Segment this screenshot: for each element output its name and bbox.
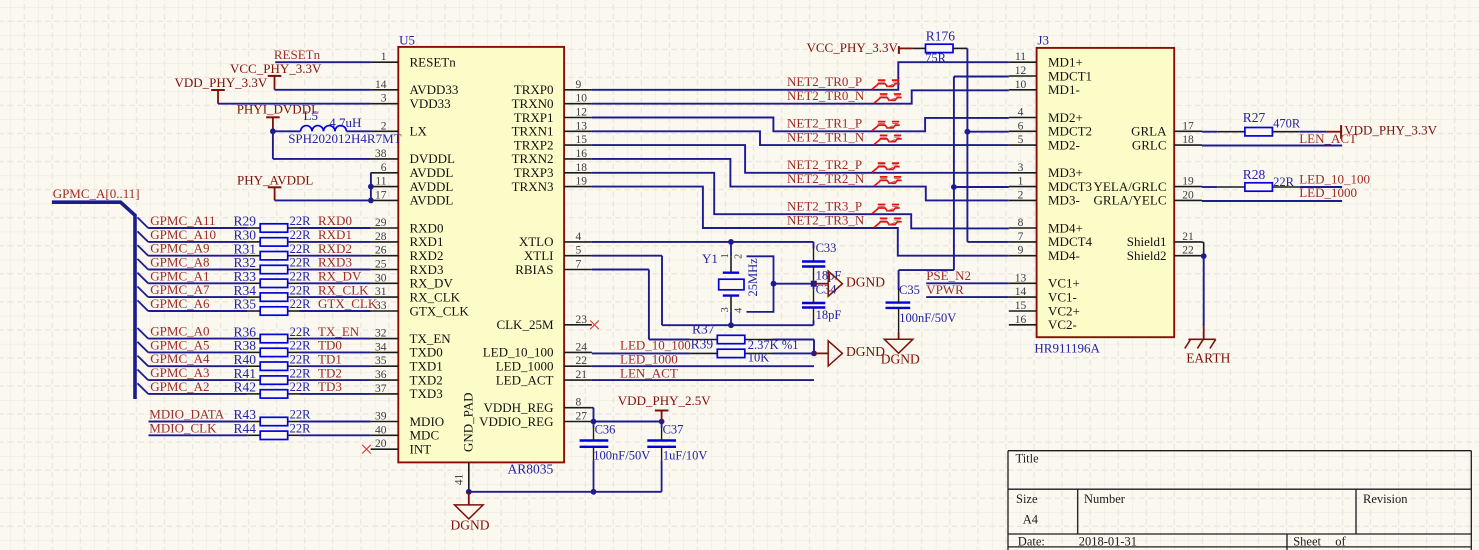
bus label GPMC_A[0..11] bbox=[53, 186, 140, 201]
svg-text:VPWR: VPWR bbox=[926, 282, 964, 297]
svg-text:VDD_PHY_2.5V: VDD_PHY_2.5V bbox=[618, 393, 711, 408]
svg-text:MD4+: MD4+ bbox=[1048, 220, 1083, 235]
svg-text:AVDDL: AVDDL bbox=[410, 165, 454, 180]
svg-text:R39: R39 bbox=[691, 336, 714, 351]
bus entry GPMC_A10 bbox=[137, 231, 148, 242]
wire GPMC_A4 to resistor bbox=[148, 365, 248, 367]
svg-text:GPMC_A5: GPMC_A5 bbox=[150, 337, 209, 352]
svg-text:HR911196A: HR911196A bbox=[1034, 341, 1100, 356]
svg-text:RX_CLK: RX_CLK bbox=[318, 282, 369, 297]
svg-text:3: 3 bbox=[381, 93, 387, 105]
net label RX_DV bbox=[318, 269, 362, 284]
wire GPMC_A0 to resistor bbox=[148, 338, 248, 340]
bus entry GPMC_A3 bbox=[137, 370, 148, 381]
net label GPMC_A4 bbox=[150, 351, 210, 366]
resistor R30 22R bbox=[234, 228, 312, 246]
net label NET2_TR1_P bbox=[787, 116, 862, 131]
svg-text:GPMC_A10: GPMC_A10 bbox=[150, 227, 216, 242]
wire GND_PAD to caps bbox=[466, 489, 662, 495]
svg-text:TRXN0: TRXN0 bbox=[512, 96, 554, 111]
svg-text:3: 3 bbox=[1018, 162, 1024, 174]
wire NET2_TR2_P bbox=[592, 145, 1009, 173]
wire MDCT1/MDCT3 (vertical B) to C35 bbox=[899, 77, 1009, 290]
net label GTX_CLK bbox=[318, 296, 378, 311]
svg-text:AR8035: AR8035 bbox=[508, 461, 554, 476]
power port PHY_AVDDL bbox=[237, 173, 313, 201]
svg-text:RXD2: RXD2 bbox=[410, 248, 444, 263]
wire GRLA/YELC LED_1000 bbox=[1202, 200, 1342, 202]
svg-text:17: 17 bbox=[375, 189, 387, 201]
resistor R27 470R bbox=[1217, 110, 1301, 136]
svg-text:VCC_PHY_3.3V: VCC_PHY_3.3V bbox=[807, 40, 899, 55]
svg-text:28: 28 bbox=[375, 231, 387, 243]
svg-text:GRLC: GRLC bbox=[1132, 137, 1167, 152]
svg-text:TXD2: TXD2 bbox=[410, 372, 443, 387]
svg-text:VC1-: VC1- bbox=[1048, 289, 1077, 304]
differential pair marker on NET2_TR1_P bbox=[872, 122, 900, 131]
svg-text:TXD3: TXD3 bbox=[410, 386, 443, 401]
svg-text:R44: R44 bbox=[234, 421, 257, 436]
svg-text:VDD33: VDD33 bbox=[410, 96, 451, 111]
svg-text:15: 15 bbox=[1015, 300, 1027, 312]
capacitor C36 100nF/50V bbox=[580, 422, 651, 492]
svg-text:16: 16 bbox=[1015, 314, 1027, 326]
svg-text:R36: R36 bbox=[234, 324, 257, 339]
svg-text:GPMC_A6: GPMC_A6 bbox=[150, 296, 210, 311]
wire GPMC_A6 to resistor bbox=[148, 310, 248, 312]
svg-text:GTX_CLK: GTX_CLK bbox=[318, 296, 378, 311]
net label LED_10_100 (right) bbox=[1299, 172, 1370, 187]
svg-text:TXD1: TXD1 bbox=[410, 359, 443, 374]
no-ERC marker at INT pin 20 bbox=[362, 445, 371, 454]
svg-text:LED_10_100: LED_10_100 bbox=[483, 345, 554, 360]
svg-text:27: 27 bbox=[576, 411, 588, 423]
bus entry GPMC_A6 bbox=[137, 300, 148, 311]
resistor R32 22R bbox=[234, 255, 312, 273]
svg-text:5: 5 bbox=[1018, 134, 1024, 146]
wire TD3 to U5 bbox=[299, 393, 371, 395]
svg-text:5: 5 bbox=[576, 245, 582, 257]
svg-text:LX: LX bbox=[410, 124, 428, 139]
svg-text:TRXN3: TRXN3 bbox=[512, 179, 554, 194]
bus entry GPMC_A4 bbox=[137, 356, 148, 367]
svg-text:100nF/50V: 100nF/50V bbox=[593, 449, 650, 463]
svg-text:1uF/10V: 1uF/10V bbox=[663, 449, 707, 463]
wire GPMC_A9 to resistor bbox=[148, 255, 248, 257]
bus entry GPMC_A7 bbox=[137, 287, 148, 298]
net label GPMC_A5 bbox=[150, 337, 209, 352]
power port EARTH bbox=[1185, 326, 1231, 365]
svg-text:14: 14 bbox=[1015, 286, 1027, 298]
svg-text:Shield2: Shield2 bbox=[1127, 248, 1167, 263]
wire TX_EN to U5 bbox=[299, 338, 371, 340]
resistor R29 22R bbox=[234, 214, 312, 233]
svg-text:RX_DV: RX_DV bbox=[318, 269, 362, 284]
svg-text:GPMC_A8: GPMC_A8 bbox=[150, 255, 209, 270]
wire GRLA to R27 bbox=[1202, 131, 1217, 133]
svg-text:R40: R40 bbox=[234, 352, 257, 367]
wire NET2_TR0_N bbox=[592, 90, 1009, 103]
resistor R31 22R bbox=[234, 241, 312, 260]
svg-text:TD0: TD0 bbox=[318, 338, 342, 353]
svg-text:NET2_TR3_P: NET2_TR3_P bbox=[787, 199, 862, 214]
differential pair marker on NET2_TR0_N bbox=[874, 94, 902, 103]
J3 left pins (stubs, numbers, names) bbox=[1009, 51, 1093, 332]
svg-text:16: 16 bbox=[576, 148, 588, 160]
resistor R37 2.37K %1 bbox=[690, 321, 799, 352]
U5 pin 41 GND_PAD bbox=[454, 393, 476, 492]
svg-text:RESETn: RESETn bbox=[274, 47, 321, 62]
svg-text:VDD_PHY_3.3V: VDD_PHY_3.3V bbox=[1344, 123, 1437, 138]
svg-text:VC1+: VC1+ bbox=[1048, 276, 1080, 291]
svg-text:Title: Title bbox=[1016, 452, 1040, 466]
svg-text:14: 14 bbox=[375, 79, 387, 91]
wire GPMC_A2 to resistor bbox=[148, 393, 248, 395]
svg-text:NET2_TR1_N: NET2_TR1_N bbox=[787, 130, 865, 145]
svg-text:NET2_TR0_P: NET2_TR0_P bbox=[787, 74, 862, 89]
bus entry GPMC_A0 bbox=[137, 328, 148, 339]
svg-text:RX_DV: RX_DV bbox=[410, 276, 454, 291]
svg-text:LED_1000: LED_1000 bbox=[1299, 185, 1357, 200]
capacitor C33 18pF bbox=[802, 241, 841, 283]
svg-text:4: 4 bbox=[576, 231, 582, 243]
svg-text:TRXN2: TRXN2 bbox=[512, 151, 554, 166]
svg-text:MDIO_CLK: MDIO_CLK bbox=[149, 420, 217, 435]
resistor R176 75R bbox=[913, 29, 968, 65]
svg-text:GPMC_A1: GPMC_A1 bbox=[150, 268, 209, 283]
svg-text:22R: 22R bbox=[290, 366, 312, 380]
svg-text:15: 15 bbox=[576, 134, 588, 146]
svg-text:21: 21 bbox=[1182, 231, 1194, 243]
svg-text:CLK_25M: CLK_25M bbox=[496, 317, 554, 332]
svg-text:AVDDL: AVDDL bbox=[410, 193, 454, 208]
svg-text:22R: 22R bbox=[290, 325, 312, 339]
svg-text:3: 3 bbox=[720, 307, 731, 312]
svg-text:2: 2 bbox=[1018, 189, 1024, 201]
svg-text:U5: U5 bbox=[399, 33, 415, 48]
IC U5 AR8035 body bbox=[398, 33, 564, 477]
net label RXD3 bbox=[318, 255, 352, 270]
resistor R36 22R bbox=[234, 324, 312, 343]
wire R37 to DGND node bbox=[773, 340, 817, 357]
svg-text:GPMC_A11: GPMC_A11 bbox=[150, 213, 215, 228]
svg-text:R43: R43 bbox=[234, 407, 257, 422]
bus entry GPMC_A2 bbox=[137, 383, 148, 394]
wire RX_DV to U5 bbox=[299, 282, 371, 284]
svg-text:TX_EN: TX_EN bbox=[410, 331, 452, 346]
svg-text:1: 1 bbox=[720, 253, 731, 258]
svg-text:39: 39 bbox=[375, 411, 387, 423]
power port DGND (crystal) bbox=[814, 271, 885, 296]
net label GPMC_A9 bbox=[150, 241, 209, 256]
net label NET2_TR1_N bbox=[787, 130, 865, 145]
net label RX_CLK bbox=[318, 282, 369, 297]
wire NET2_TR0_P bbox=[592, 62, 1009, 90]
svg-text:35: 35 bbox=[375, 355, 387, 367]
differential pair marker on NET2_TR1_N bbox=[874, 135, 902, 144]
svg-text:1: 1 bbox=[1018, 176, 1024, 188]
power port DGND (GND_PAD) bbox=[451, 492, 490, 533]
svg-text:6: 6 bbox=[1018, 120, 1024, 132]
svg-text:13: 13 bbox=[576, 120, 588, 132]
power port VDD_PHY_3.3V (left) bbox=[175, 75, 268, 104]
bus entry GPMC_A8 bbox=[137, 259, 148, 270]
svg-text:22R: 22R bbox=[290, 242, 312, 256]
svg-text:22R: 22R bbox=[290, 228, 312, 242]
net label RXD1 bbox=[318, 227, 352, 242]
net label NET2_TR2_N bbox=[787, 171, 865, 186]
resistor R33 22R bbox=[234, 269, 312, 288]
bus GPMC_A bbox=[52, 202, 135, 399]
net label PSE_N2 bbox=[926, 268, 971, 283]
svg-text:C35: C35 bbox=[899, 283, 920, 297]
wire NET2_TR2_N bbox=[592, 159, 1009, 201]
wire LED_10_100 to R39 bbox=[592, 352, 690, 354]
svg-text:MDCT1: MDCT1 bbox=[1048, 68, 1092, 83]
svg-text:24: 24 bbox=[576, 341, 588, 353]
wire TD0 to U5 bbox=[299, 351, 371, 353]
svg-text:TRXN1: TRXN1 bbox=[512, 124, 554, 139]
wire MDIO_CLK to U5 bbox=[299, 434, 371, 436]
wire RXD2 to U5 bbox=[299, 255, 371, 257]
svg-text:10: 10 bbox=[1015, 79, 1027, 91]
svg-text:TXD0: TXD0 bbox=[410, 345, 443, 360]
svg-text:NET2_TR2_P: NET2_TR2_P bbox=[787, 157, 862, 172]
wire GPMC_A3 to resistor bbox=[148, 379, 248, 381]
svg-text:30: 30 bbox=[375, 272, 387, 284]
net label VPWR bbox=[926, 282, 964, 297]
svg-text:MDIO_DATA: MDIO_DATA bbox=[149, 407, 224, 422]
wire PHY_AVDDL to AVDDL pins 6/11/17 bbox=[275, 173, 374, 204]
svg-text:R28: R28 bbox=[1243, 167, 1266, 182]
wire NET2_TR1_P bbox=[592, 118, 1009, 132]
svg-text:18: 18 bbox=[576, 162, 588, 174]
svg-text:NET2_TR0_N: NET2_TR0_N bbox=[787, 88, 865, 103]
svg-text:RESETn: RESETn bbox=[410, 55, 457, 70]
svg-text:VC2+: VC2+ bbox=[1048, 303, 1080, 318]
title block bbox=[1008, 451, 1471, 550]
capacitor C34 18pF bbox=[802, 283, 841, 323]
svg-text:21: 21 bbox=[576, 369, 588, 381]
svg-text:Number: Number bbox=[1084, 492, 1126, 506]
wire RX_CLK to U5 bbox=[299, 296, 371, 298]
svg-text:MD2-: MD2- bbox=[1048, 137, 1080, 152]
svg-text:RBIAS: RBIAS bbox=[515, 262, 553, 277]
wire GPMC_A8 to resistor bbox=[148, 269, 248, 271]
svg-text:VCC_PHY_3.3V: VCC_PHY_3.3V bbox=[230, 61, 322, 76]
svg-text:INT: INT bbox=[410, 442, 432, 457]
U5 right pins (stubs, numbers, names) bbox=[479, 79, 592, 429]
resistor R41 22R bbox=[234, 366, 312, 385]
resistor R42 22R bbox=[234, 380, 312, 399]
svg-text:22R: 22R bbox=[290, 380, 312, 394]
svg-text:25: 25 bbox=[375, 259, 387, 271]
svg-text:32: 32 bbox=[375, 328, 387, 340]
wire RBIAS net bbox=[592, 270, 690, 340]
svg-text:of: of bbox=[1335, 534, 1346, 548]
bus entry GPMC_A5 bbox=[137, 342, 148, 353]
svg-text:22R: 22R bbox=[290, 256, 312, 270]
svg-text:4.7uH: 4.7uH bbox=[329, 115, 361, 130]
wire VDDH_REG/VDDIO_REG node bbox=[591, 408, 665, 425]
svg-text:TX_EN: TX_EN bbox=[318, 324, 360, 339]
svg-text:DGND: DGND bbox=[881, 351, 920, 366]
svg-text:20: 20 bbox=[1182, 189, 1194, 201]
svg-text:12: 12 bbox=[576, 107, 588, 119]
svg-text:22R: 22R bbox=[290, 408, 312, 422]
inductor L5 SPH202012H4R7MT 4.7uH bbox=[288, 108, 401, 146]
svg-text:LEN_ACT: LEN_ACT bbox=[1299, 131, 1357, 146]
svg-text:R35: R35 bbox=[234, 297, 257, 312]
svg-text:RXD3: RXD3 bbox=[318, 255, 352, 270]
wire NET2_TR1_N bbox=[592, 131, 1009, 145]
wire Shield1/Shield2 to EARTH bbox=[1201, 242, 1207, 326]
wire NET2_TR3_N bbox=[592, 187, 1009, 256]
svg-text:R41: R41 bbox=[234, 366, 257, 381]
net label GPMC_A11 bbox=[150, 213, 215, 228]
wire LEN_ACT (mid) bbox=[592, 379, 814, 381]
svg-text:C36: C36 bbox=[595, 423, 616, 437]
svg-text:40: 40 bbox=[375, 424, 387, 436]
svg-text:22R: 22R bbox=[290, 352, 312, 366]
svg-text:GRLA: GRLA bbox=[1131, 124, 1167, 139]
bus entry GPMC_A11 bbox=[137, 217, 148, 228]
U5 left pins (stubs, numbers, names) bbox=[371, 51, 470, 456]
svg-text:20: 20 bbox=[375, 438, 387, 450]
svg-text:2018-01-31: 2018-01-31 bbox=[1079, 534, 1137, 548]
svg-text:19: 19 bbox=[576, 176, 588, 188]
svg-text:36: 36 bbox=[375, 369, 387, 381]
net label GPMC_A3 bbox=[150, 365, 209, 380]
svg-text:DGND: DGND bbox=[846, 274, 885, 289]
svg-text:4: 4 bbox=[1018, 107, 1024, 119]
no-ERC marker at CLK_25M pin 23 bbox=[590, 321, 599, 330]
svg-text:MDC: MDC bbox=[410, 428, 440, 443]
svg-text:VDDH_REG: VDDH_REG bbox=[483, 400, 553, 415]
resistor R39 10K bbox=[690, 336, 773, 364]
svg-text:RXD2: RXD2 bbox=[318, 241, 352, 256]
power port VCC_PHY_3.3V (top right) bbox=[807, 40, 913, 55]
svg-text:GPMC_A3: GPMC_A3 bbox=[150, 365, 209, 380]
wire PSE_N2 bbox=[926, 282, 1009, 284]
wire NET2_TR3_P bbox=[592, 173, 1009, 229]
resistor R40 22R bbox=[234, 352, 312, 371]
wire RXD3 to U5 bbox=[299, 269, 371, 271]
power port PHYI_DVDDL bbox=[237, 102, 319, 132]
svg-text:TD3: TD3 bbox=[318, 379, 342, 394]
power port DGND (C35) bbox=[881, 332, 920, 367]
svg-text:37: 37 bbox=[375, 383, 387, 395]
svg-text:1: 1 bbox=[381, 51, 387, 63]
svg-text:MD1-: MD1- bbox=[1048, 82, 1080, 97]
svg-text:Y1: Y1 bbox=[702, 251, 718, 266]
svg-text:RXD0: RXD0 bbox=[410, 220, 444, 235]
svg-text:L5: L5 bbox=[304, 108, 318, 123]
net label GPMC_A7 bbox=[150, 282, 210, 297]
net label LEN_ACT (mid) bbox=[620, 365, 678, 380]
net label NET2_TR0_N bbox=[787, 88, 865, 103]
svg-text:MD4-: MD4- bbox=[1048, 248, 1080, 263]
svg-text:10K: 10K bbox=[748, 351, 770, 365]
svg-text:4: 4 bbox=[734, 307, 745, 313]
power port VCC_PHY_3.3V (left) bbox=[230, 61, 322, 90]
wire R39 to DGND node bbox=[773, 352, 814, 354]
svg-text:GND_PAD: GND_PAD bbox=[461, 393, 476, 452]
wire TD2 to U5 bbox=[299, 379, 371, 381]
net label TD1 bbox=[318, 351, 342, 366]
svg-text:22R: 22R bbox=[290, 339, 312, 353]
connector J3 HR911196A body bbox=[1034, 33, 1174, 356]
svg-text:XTLO: XTLO bbox=[519, 234, 554, 249]
svg-text:DVDDL: DVDDL bbox=[410, 151, 456, 166]
svg-text:GPMC_A[0..11]: GPMC_A[0..11] bbox=[53, 186, 140, 201]
svg-text:LED_10_100: LED_10_100 bbox=[620, 338, 691, 353]
svg-text:11: 11 bbox=[375, 176, 386, 188]
svg-text:MD1+: MD1+ bbox=[1048, 55, 1083, 70]
svg-text:R176: R176 bbox=[926, 29, 956, 44]
svg-text:R31: R31 bbox=[234, 241, 257, 256]
svg-text:22R: 22R bbox=[290, 270, 312, 284]
svg-text:VDD_PHY_3.3V: VDD_PHY_3.3V bbox=[175, 75, 268, 90]
wire R28 LED_10_100 bbox=[1300, 186, 1342, 188]
svg-text:Shield1: Shield1 bbox=[1127, 234, 1167, 249]
svg-text:22: 22 bbox=[576, 355, 588, 367]
net label NET2_TR3_N bbox=[787, 212, 865, 227]
net label MDIO_CLK bbox=[149, 420, 217, 435]
svg-text:18: 18 bbox=[1182, 134, 1194, 146]
resistor R43 22R bbox=[234, 407, 312, 425]
svg-text:J3: J3 bbox=[1037, 33, 1049, 48]
svg-text:MDCT4: MDCT4 bbox=[1048, 234, 1093, 249]
svg-text:C33: C33 bbox=[816, 241, 837, 255]
svg-text:34: 34 bbox=[375, 341, 387, 353]
svg-text:22R: 22R bbox=[290, 214, 312, 228]
svg-text:TD1: TD1 bbox=[318, 351, 342, 366]
svg-text:25MHz: 25MHz bbox=[746, 258, 760, 297]
net label NET2_TR3_P bbox=[787, 199, 862, 214]
wire GRLC / LEN_ACT bbox=[1202, 145, 1342, 147]
svg-text:C37: C37 bbox=[663, 423, 684, 437]
svg-text:SPH202012H4R7MT: SPH202012H4R7MT bbox=[288, 131, 401, 146]
differential pair marker on NET2_TR3_N bbox=[874, 218, 902, 227]
differential pair marker on NET2_TR0_P bbox=[872, 80, 900, 89]
svg-text:9: 9 bbox=[1018, 245, 1024, 257]
svg-text:GPMC_A9: GPMC_A9 bbox=[150, 241, 209, 256]
svg-text:29: 29 bbox=[375, 217, 387, 229]
svg-text:22R: 22R bbox=[290, 297, 312, 311]
svg-text:100nF/50V: 100nF/50V bbox=[899, 311, 956, 325]
capacitor C37 1uF/10V bbox=[647, 422, 707, 492]
svg-text:TRXP2: TRXP2 bbox=[514, 137, 554, 152]
wire AVDD33 pin14 bbox=[275, 89, 371, 91]
wire TD1 to U5 bbox=[299, 365, 371, 367]
wire YELA/GRLC to R28 bbox=[1202, 186, 1217, 188]
wire GPMC_A11 to resistor bbox=[148, 227, 248, 229]
wire GPMC_A10 to resistor bbox=[148, 241, 248, 243]
resistor R38 22R bbox=[234, 338, 312, 357]
wire VPWR bbox=[926, 296, 1009, 298]
svg-text:AVDDL: AVDDL bbox=[410, 179, 454, 194]
svg-text:TRXP0: TRXP0 bbox=[514, 82, 554, 97]
svg-text:EARTH: EARTH bbox=[1186, 351, 1230, 366]
svg-text:R29: R29 bbox=[234, 214, 257, 229]
wire GPMC_A5 to resistor bbox=[148, 351, 248, 353]
svg-text:LED_1000: LED_1000 bbox=[496, 359, 554, 374]
svg-text:R33: R33 bbox=[234, 269, 257, 284]
svg-text:VDDIO_REG: VDDIO_REG bbox=[479, 414, 553, 429]
svg-text:8: 8 bbox=[576, 397, 582, 409]
power port VDD_PHY_3.3V (right) bbox=[1326, 123, 1437, 139]
